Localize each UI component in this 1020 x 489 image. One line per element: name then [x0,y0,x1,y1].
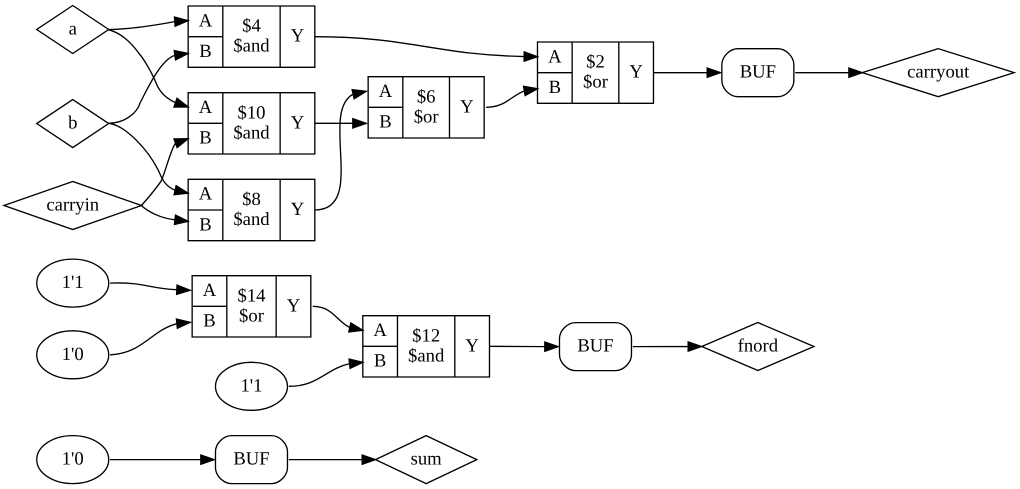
svg-text:a: a [69,18,78,39]
svg-text:fnord: fnord [738,335,779,356]
svg-text:Y: Y [291,199,304,220]
wire $10.Y to $6.B [315,119,366,128]
wire a to $4.A [109,17,188,30]
or-gate cell $14 [192,276,311,337]
svg-text:BUF: BUF [740,62,776,83]
svg-text:B: B [374,351,386,372]
svg-text:A: A [373,320,387,341]
svg-text:BUF: BUF [577,336,613,357]
wire carryin to $10.B [141,139,188,206]
node carryout (output wire) [862,49,1014,97]
svg-text:sum: sum [411,449,443,470]
constant 1'0 (sum) [37,436,109,484]
svg-text:BUF: BUF [233,449,269,470]
constant 1'0 [37,331,109,379]
svg-text:b: b [68,112,77,133]
svg-text:Y: Y [465,335,478,356]
node a (input wire) [37,6,109,54]
or-gate cell $2 [537,42,653,103]
constant 1'1 [37,259,109,307]
and-gate cell $10 [188,93,315,154]
svg-text:1'1: 1'1 [240,375,262,396]
wire $6.Y to $2.B [486,86,537,107]
svg-text:$or: $or [414,106,440,127]
node sum (output wire) [375,436,476,484]
constant 1'1 (second) [215,362,287,410]
svg-text:$and: $and [408,345,445,366]
node carryin (input wire) [4,182,142,230]
svg-text:$12: $12 [412,325,440,346]
svg-text:$14: $14 [237,285,266,306]
svg-text:$4: $4 [242,16,261,37]
buffer BUF (sum) [215,436,287,484]
wire 1'1 to $12.B [289,359,363,386]
buffer BUF (fnord) [559,323,631,371]
svg-text:$6: $6 [417,86,436,107]
svg-text:$2: $2 [586,52,605,73]
wire a to $10.A [109,30,188,107]
svg-text:A: A [548,46,562,67]
svg-text:A: A [379,81,393,102]
buffer BUF (carryout) [722,49,794,97]
svg-text:$and: $and [233,122,270,143]
svg-text:B: B [199,214,211,235]
svg-text:A: A [203,280,217,301]
and-gate cell $12 [363,316,490,377]
wire 1'0 to $14.B [110,319,190,355]
svg-text:B: B [199,41,211,62]
wire b to $8.A [109,123,188,194]
wire 1'1 to $14.A [110,283,190,294]
wire BUF to carryout [795,68,862,77]
svg-text:$10: $10 [237,102,265,123]
svg-text:Y: Y [460,96,473,117]
svg-text:A: A [199,97,213,118]
svg-text:$or: $or [583,72,609,93]
svg-text:B: B [379,112,391,133]
svg-text:Y: Y [287,295,300,316]
svg-text:Y: Y [291,26,304,47]
svg-text:$8: $8 [242,189,261,210]
wire $2.Y to BUF [653,68,720,77]
svg-text:B: B [203,311,215,332]
svg-text:1'0: 1'0 [62,449,84,470]
wire $8.Y to $6.A [315,90,366,210]
and-gate cell $4 [188,6,315,67]
svg-text:B: B [549,77,561,98]
svg-text:1'0: 1'0 [62,344,84,365]
and-gate cell $8 [188,179,315,240]
wire 1'0 to BUF [110,455,214,464]
wire BUF to fnord [633,342,702,351]
or-gate cell $6 [368,77,484,138]
wire b to $4.B [109,51,188,124]
svg-text:carryout: carryout [907,62,970,83]
svg-text:carryin: carryin [46,194,99,215]
svg-text:A: A [199,10,213,31]
wire $12.Y to BUF [489,342,558,351]
wire carryin to $8.B [141,206,188,225]
node fnord (output wire) [702,323,814,371]
wire BUF to sum [289,455,376,464]
svg-text:$and: $and [233,209,270,230]
svg-text:Y: Y [291,112,304,133]
svg-text:$or: $or [239,305,265,326]
svg-text:1'1: 1'1 [62,272,84,293]
svg-text:Y: Y [629,62,642,83]
wire $14.Y to $12.A [313,306,363,332]
svg-text:$and: $and [233,36,270,57]
wire $4.Y to $2.A [315,37,538,62]
node b (input wire) [37,100,109,148]
svg-text:A: A [199,184,213,205]
svg-text:B: B [199,128,211,149]
